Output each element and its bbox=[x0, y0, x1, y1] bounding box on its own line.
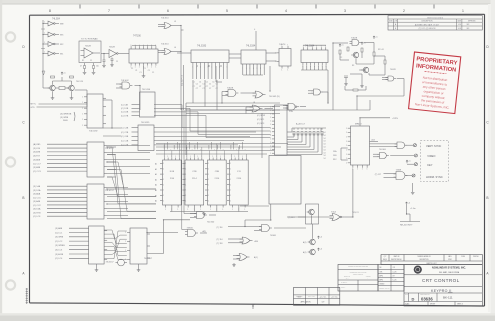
svg-text:(T) 114: (T) 114 bbox=[217, 239, 223, 241]
svg-text:C7: C7 bbox=[199, 86, 201, 88]
svg-text:(X) LC3: (X) LC3 bbox=[55, 250, 63, 252]
svg-text:A+A DO-7: A+A DO-7 bbox=[296, 123, 306, 126]
svg-text:(X) WRB: (X) WRB bbox=[55, 237, 64, 239]
svg-text:1: 1 bbox=[177, 209, 178, 211]
svg-text:14: 14 bbox=[324, 158, 326, 160]
svg-text:C1: C1 bbox=[196, 84, 198, 86]
svg-text:2: 2 bbox=[403, 9, 405, 13]
svg-text:(X) A3B: (X) A3B bbox=[33, 166, 41, 169]
svg-text:R3: R3 bbox=[352, 65, 354, 67]
svg-text:C1: C1 bbox=[131, 68, 133, 70]
svg-text:74LS00: 74LS00 bbox=[207, 222, 215, 224]
svg-text:2114: 2114 bbox=[236, 178, 241, 180]
svg-text:NE-423 KEY: NE-423 KEY bbox=[400, 225, 413, 227]
svg-text:2114: 2114 bbox=[192, 178, 197, 180]
svg-text:1: 1 bbox=[303, 46, 304, 48]
svg-text:A(1): A(1) bbox=[303, 241, 307, 244]
svg-text:(C) 41 PTS: (C) 41 PTS bbox=[182, 75, 184, 86]
svg-text:74LS10: 74LS10 bbox=[161, 44, 169, 46]
svg-text:74L5157: 74L5157 bbox=[106, 261, 115, 263]
svg-text:W.T: W.T bbox=[393, 275, 396, 277]
svg-text:A1: A1 bbox=[155, 178, 157, 181]
svg-text:74LS195: 74LS195 bbox=[141, 122, 150, 124]
svg-text:C1: C1 bbox=[135, 70, 137, 72]
svg-text:WE: WE bbox=[60, 24, 64, 26]
svg-text:(C) CC5: (C) CC5 bbox=[33, 197, 41, 199]
svg-text:1: 1 bbox=[139, 66, 140, 68]
svg-text:74S74: 74S74 bbox=[279, 44, 286, 46]
svg-text:1: 1 bbox=[270, 153, 271, 155]
svg-text:(X) WRRGB: (X) WRRGB bbox=[60, 114, 72, 116]
svg-text:1: 1 bbox=[281, 45, 282, 47]
svg-text:L4: L4 bbox=[174, 47, 176, 49]
svg-text:(T) U17, (C) U8 ECN: (T) U17, (C) U8 ECN bbox=[419, 28, 436, 30]
svg-text:C1: C1 bbox=[139, 72, 141, 74]
svg-text:1: 1 bbox=[125, 250, 126, 252]
svg-text:R2 L41: R2 L41 bbox=[378, 49, 384, 51]
svg-text:(T) 118: (T) 118 bbox=[217, 243, 223, 245]
svg-text:5: 5 bbox=[226, 9, 228, 13]
svg-text:1: 1 bbox=[82, 113, 83, 115]
svg-text:1: 1 bbox=[222, 209, 223, 211]
svg-text:1: 1 bbox=[82, 108, 83, 110]
svg-text:74LS04: 74LS04 bbox=[52, 19, 61, 21]
svg-text:14: 14 bbox=[324, 155, 326, 157]
svg-text:K7A: K7A bbox=[170, 170, 175, 173]
svg-text:74628: 74628 bbox=[109, 47, 116, 49]
svg-text:1: 1 bbox=[197, 156, 198, 158]
svg-text:14: 14 bbox=[324, 141, 326, 143]
svg-text:1: 1 bbox=[44, 32, 45, 34]
svg-text:1: 1 bbox=[82, 125, 83, 127]
svg-text:1: 1 bbox=[270, 128, 271, 130]
svg-text:C2: C2 bbox=[340, 57, 342, 59]
svg-text:W.F: W.F bbox=[467, 28, 470, 30]
svg-text:A1: A1 bbox=[155, 163, 157, 166]
svg-text:L3: L3 bbox=[174, 21, 176, 23]
svg-text:1: 1 bbox=[234, 156, 235, 158]
svg-text:UNLESS OTHERWISE SPECIFIED: UNLESS OTHERWISE SPECIFIED bbox=[348, 266, 368, 268]
svg-text:KEY: KEY bbox=[427, 163, 432, 167]
svg-text:(C) C4B: (C) C4B bbox=[121, 128, 129, 130]
svg-text:74S00: 74S00 bbox=[187, 228, 194, 230]
svg-text:1: 1 bbox=[44, 21, 45, 23]
svg-text:(X) K14: (X) K14 bbox=[33, 148, 41, 150]
svg-text:27A: 27A bbox=[170, 177, 174, 180]
svg-text:1: 1 bbox=[270, 149, 271, 151]
svg-text:1: 1 bbox=[270, 146, 271, 148]
svg-text:1: 1 bbox=[346, 141, 347, 143]
svg-text:C2B: C2B bbox=[192, 171, 197, 173]
svg-text:1: 1 bbox=[346, 154, 347, 156]
svg-text:(X) D2A: (X) D2A bbox=[33, 208, 41, 211]
svg-text:TX TO RTN RAD: TX TO RTN RAD bbox=[81, 38, 98, 41]
svg-text:1: 1 bbox=[242, 156, 243, 158]
svg-text:QTY: QTY bbox=[384, 256, 387, 258]
svg-text:C7: C7 bbox=[216, 88, 218, 90]
svg-text:74L5196: 74L5196 bbox=[142, 89, 151, 91]
svg-text:MTTC: MTTC bbox=[31, 104, 37, 106]
svg-text:1: 1 bbox=[367, 169, 368, 171]
svg-text:REQD: REQD bbox=[383, 259, 387, 261]
svg-text:1: 1 bbox=[312, 46, 313, 48]
svg-text:1-26: 1-26 bbox=[458, 24, 461, 26]
svg-text:IDENTIFYING NO.: IDENTIFYING NO. bbox=[391, 259, 403, 261]
svg-text:LTR: LTR bbox=[394, 21, 396, 23]
svg-text:(T) 117: (T) 117 bbox=[375, 174, 382, 176]
svg-text:A(1): A(1) bbox=[303, 251, 307, 254]
svg-text:1: 1 bbox=[82, 96, 83, 98]
svg-text:1: 1 bbox=[190, 156, 191, 158]
svg-text:74L5192: 74L5192 bbox=[89, 131, 98, 133]
svg-text:1: 1 bbox=[210, 209, 211, 211]
svg-text:1: 1 bbox=[270, 110, 271, 112]
svg-text:(A) KB5: (A) KB5 bbox=[33, 143, 41, 146]
svg-text:(X) WRB: (X) WRB bbox=[60, 117, 69, 119]
svg-text:14: 14 bbox=[324, 149, 326, 151]
svg-text:DESCRIPTION: DESCRIPTION bbox=[422, 21, 434, 23]
svg-text:1: 1 bbox=[125, 232, 126, 234]
svg-text:B: B bbox=[22, 196, 24, 200]
svg-text:(X) A5B: (X) A5B bbox=[33, 158, 41, 161]
svg-text:1: 1 bbox=[270, 135, 271, 137]
svg-text:1: 1 bbox=[135, 66, 136, 68]
svg-text:(X) A6A: (X) A6A bbox=[33, 193, 41, 196]
svg-text:(X) F27: (X) F27 bbox=[33, 156, 41, 158]
svg-text:(C) SC1: (C) SC1 bbox=[257, 119, 265, 121]
svg-text:1: 1 bbox=[287, 69, 288, 71]
svg-text:VERT. SYNC: VERT. SYNC bbox=[426, 144, 441, 148]
svg-text:(C) CC2: (C) CC2 bbox=[33, 205, 41, 207]
svg-text:CRT CONTROL: CRT CONTROL bbox=[422, 278, 460, 283]
svg-text:74L5157: 74L5157 bbox=[144, 258, 153, 260]
svg-text:47: 47 bbox=[80, 66, 82, 68]
svg-text:(T) 116: (T) 116 bbox=[217, 227, 223, 229]
svg-text:1: 1 bbox=[175, 156, 176, 158]
svg-text:1: 1 bbox=[346, 136, 347, 138]
svg-text:1: 1 bbox=[346, 145, 347, 147]
svg-text:1: 1 bbox=[151, 66, 152, 68]
svg-text:DR: DR bbox=[380, 267, 382, 269]
svg-text:1: 1 bbox=[281, 69, 282, 71]
svg-text:RGB: RGB bbox=[63, 120, 68, 122]
svg-text:A(1): A(1) bbox=[203, 230, 207, 233]
svg-text:14: 14 bbox=[324, 135, 326, 137]
svg-text:6-1-76: 6-1-76 bbox=[393, 279, 397, 281]
svg-text:1: 1 bbox=[270, 142, 271, 144]
svg-text:74T190: 74T190 bbox=[133, 36, 142, 38]
svg-text:B: B bbox=[486, 196, 488, 200]
svg-text:1: 1 bbox=[316, 46, 317, 48]
svg-text:(X) A8B: (X) A8B bbox=[55, 227, 63, 230]
svg-text:74LS194: 74LS194 bbox=[246, 45, 256, 47]
svg-text:74S08: 74S08 bbox=[270, 235, 277, 237]
svg-text:(C) C1B: (C) C1B bbox=[121, 140, 129, 142]
svg-text:C7: C7 bbox=[212, 86, 214, 88]
svg-text:A1: A1 bbox=[155, 189, 157, 192]
svg-text:2114: 2114 bbox=[214, 178, 219, 180]
svg-text:(X) WRBB: (X) WRBB bbox=[55, 245, 65, 247]
svg-text:DESCRIPTION: DESCRIPTION bbox=[420, 259, 429, 261]
svg-text:SIZE: SIZE bbox=[405, 294, 408, 296]
svg-text:A1: A1 bbox=[155, 184, 157, 187]
svg-text:C1: C1 bbox=[206, 82, 208, 84]
svg-text:HORIZ. SYNC: HORIZ. SYNC bbox=[426, 175, 443, 179]
svg-text:4: 4 bbox=[254, 29, 255, 31]
svg-text:ALIGNED (NK) GA W. (T) U17: ALIGNED (NK) GA W. (T) U17 bbox=[415, 23, 439, 26]
svg-text:1: 1 bbox=[270, 117, 271, 119]
svg-text:C1: C1 bbox=[202, 84, 204, 86]
svg-text:C1: C1 bbox=[216, 84, 218, 86]
svg-text:C1: C1 bbox=[148, 70, 150, 72]
svg-text:1: 1 bbox=[287, 45, 288, 47]
svg-text:1: 1 bbox=[270, 121, 271, 123]
svg-text:(X) A11B: (X) A11B bbox=[55, 253, 64, 256]
svg-text:74LS10: 74LS10 bbox=[161, 18, 169, 20]
svg-text:1: 1 bbox=[270, 131, 271, 133]
svg-text:(C) LC2: (C) LC2 bbox=[55, 241, 63, 243]
svg-text:CHK: CHK bbox=[380, 271, 383, 273]
svg-text:74608: 74608 bbox=[396, 169, 402, 171]
svg-text:14: 14 bbox=[324, 147, 326, 149]
svg-text:(C) CC7: (C) CC7 bbox=[33, 163, 41, 165]
svg-text:1: 1 bbox=[200, 209, 201, 211]
svg-text:FINISH: FINISH bbox=[341, 287, 345, 289]
svg-text:1: 1 bbox=[346, 128, 347, 130]
svg-text:(X) RTB: (X) RTB bbox=[33, 212, 41, 214]
svg-text:1: 1 bbox=[357, 169, 358, 171]
svg-text:(X) A7B: (X) A7B bbox=[33, 151, 41, 154]
svg-text:3-18: 3-18 bbox=[458, 28, 461, 30]
svg-text:14: 14 bbox=[324, 144, 326, 146]
svg-text:3: 3 bbox=[344, 9, 346, 13]
svg-text:(C) D1B: (C) D1B bbox=[121, 108, 129, 110]
svg-text:1: 1 bbox=[270, 124, 271, 126]
svg-text:(C) C6B: (C) C6B bbox=[121, 136, 129, 138]
svg-text:74L574: 74L574 bbox=[76, 81, 84, 83]
svg-text:1: 1 bbox=[275, 61, 276, 63]
svg-text:A1: A1 bbox=[155, 200, 157, 203]
svg-text:100: 100 bbox=[96, 66, 99, 68]
svg-text:A1: A1 bbox=[155, 168, 157, 171]
svg-text:1: 1 bbox=[220, 156, 221, 158]
svg-text:C1: C1 bbox=[90, 60, 92, 62]
svg-text:1: 1 bbox=[346, 132, 347, 134]
svg-text:(C) LC1: (C) LC1 bbox=[55, 232, 63, 234]
svg-text:(C) SC3: (C) SC3 bbox=[257, 123, 265, 125]
svg-text:4: 4 bbox=[285, 9, 287, 13]
svg-text:1: 1 bbox=[44, 42, 45, 44]
svg-text:BK-111: BK-111 bbox=[443, 295, 453, 299]
svg-text:1: 1 bbox=[346, 162, 347, 164]
svg-text:1: 1 bbox=[155, 66, 156, 68]
svg-text:(X) D1A: (X) D1A bbox=[33, 189, 41, 192]
svg-text:(C) 14B: (C) 14B bbox=[121, 105, 129, 107]
svg-text:A1: A1 bbox=[155, 194, 157, 197]
svg-text:(X) A4B: (X) A4B bbox=[33, 200, 41, 203]
svg-text:C1: C1 bbox=[152, 72, 154, 74]
svg-text:A1: A1 bbox=[155, 173, 157, 176]
svg-text:A13: A13 bbox=[372, 138, 375, 141]
svg-text:C7: C7 bbox=[196, 88, 198, 90]
svg-text:VIDEO: VIDEO bbox=[427, 154, 435, 158]
svg-text:1: 1 bbox=[321, 46, 322, 48]
svg-text:1: 1 bbox=[167, 156, 168, 158]
svg-text:1: 1 bbox=[462, 9, 464, 13]
svg-text:74628: 74628 bbox=[227, 88, 234, 90]
svg-text:1: 1 bbox=[325, 46, 326, 48]
svg-text:4-1-76: 4-1-76 bbox=[393, 271, 397, 273]
svg-text:1: 1 bbox=[270, 106, 271, 108]
svg-text:+5 Ga: +5 Ga bbox=[410, 208, 416, 210]
svg-text:1: 1 bbox=[44, 51, 45, 53]
svg-text:1: 1 bbox=[147, 66, 148, 68]
svg-text:(C) D2B: (C) D2B bbox=[121, 112, 129, 114]
svg-text:DEL MAR, CALIFORNIA: DEL MAR, CALIFORNIA bbox=[439, 271, 460, 274]
svg-text:C1: C1 bbox=[199, 82, 201, 84]
svg-text:.XX ±: .XX ± bbox=[346, 278, 349, 280]
svg-text:74LS02: 74LS02 bbox=[121, 80, 129, 82]
svg-text:1: 1 bbox=[125, 259, 126, 261]
svg-text:ZONE: ZONE bbox=[389, 21, 393, 23]
svg-text:1: 1 bbox=[212, 156, 213, 158]
svg-text:1: 1 bbox=[125, 241, 126, 243]
svg-text:C5: C5 bbox=[116, 61, 118, 63]
svg-text:1: 1 bbox=[244, 209, 245, 211]
svg-text:A(1): A(1) bbox=[254, 256, 258, 259]
svg-text:C1: C1 bbox=[212, 82, 214, 84]
svg-text:TK3,74: TK3,74 bbox=[352, 212, 359, 214]
svg-text:1: 1 bbox=[232, 209, 233, 211]
svg-text:(C) SCW: (C) SCW bbox=[257, 115, 265, 117]
svg-text:A30: A30 bbox=[255, 240, 258, 243]
svg-text:1: 1 bbox=[362, 169, 363, 171]
svg-text:QTY: QTY bbox=[322, 301, 325, 303]
svg-text:ISSUED: ISSUED bbox=[380, 283, 385, 285]
svg-text:R E V I S I O N S: R E V I S I O N S bbox=[427, 17, 443, 19]
svg-text:(C) LC4: (C) LC4 bbox=[55, 258, 63, 260]
svg-text:8: 8 bbox=[49, 9, 51, 13]
svg-text:(C) CC3: (C) CC3 bbox=[33, 171, 41, 173]
svg-text:6: 6 bbox=[167, 9, 169, 13]
svg-text:SPEC: SPEC bbox=[448, 259, 452, 261]
svg-text:74LS157: 74LS157 bbox=[105, 148, 115, 150]
svg-text:C9B: C9B bbox=[215, 171, 220, 173]
svg-text:WEIGHT: WEIGHT bbox=[430, 304, 435, 306]
svg-text:7: 7 bbox=[108, 9, 110, 13]
svg-text:7414: 7414 bbox=[331, 212, 337, 214]
svg-text:GTD: GTD bbox=[31, 107, 36, 109]
svg-text:(X) 14A: (X) 14A bbox=[33, 185, 41, 188]
svg-text:ZONE: ZONE bbox=[461, 256, 465, 258]
svg-text:C1: C1 bbox=[144, 68, 146, 70]
svg-text:74LS193: 74LS193 bbox=[197, 45, 207, 47]
svg-text:(C) LC8: (C) LC8 bbox=[33, 216, 41, 218]
svg-text:NONLINEAR SYSTEMS, INC.: NONLINEAR SYSTEMS, INC. bbox=[432, 267, 466, 270]
svg-text:R1: R1 bbox=[82, 60, 84, 62]
svg-text:SHEET 21: SHEET 21 bbox=[457, 304, 463, 306]
svg-text:1: 1 bbox=[165, 209, 166, 211]
svg-text:1: 1 bbox=[270, 139, 271, 141]
svg-text:14: 14 bbox=[324, 132, 326, 134]
svg-text:1: 1 bbox=[307, 46, 308, 48]
svg-text:C7: C7 bbox=[209, 88, 211, 90]
svg-text:74LS02 (S): 74LS02 (S) bbox=[269, 96, 280, 98]
svg-text:C7: C7 bbox=[202, 88, 204, 90]
svg-text:C1: C1 bbox=[209, 84, 211, 86]
svg-text:D: D bbox=[412, 296, 415, 301]
svg-text:W.F: W.F bbox=[467, 24, 470, 26]
svg-text:14: 14 bbox=[324, 138, 326, 140]
svg-text:1: 1 bbox=[187, 209, 188, 211]
svg-text:1: 1 bbox=[270, 114, 271, 116]
svg-text:74628: 74628 bbox=[351, 38, 358, 40]
svg-text:(C) D7B: (C) D7B bbox=[121, 115, 129, 117]
svg-text:74628: 74628 bbox=[390, 69, 396, 71]
svg-text:74LS157: 74LS157 bbox=[105, 190, 115, 192]
svg-text:C7: C7 bbox=[206, 86, 208, 88]
svg-text:ITEM NO.: ITEM NO. bbox=[473, 256, 479, 258]
svg-text:1: 1 bbox=[346, 149, 347, 151]
svg-text:03636: 03636 bbox=[421, 296, 433, 301]
svg-text:-CIPS: -CIPS bbox=[392, 118, 398, 120]
svg-text:74LS00: 74LS00 bbox=[379, 149, 387, 151]
svg-text:1: 1 bbox=[82, 119, 83, 121]
svg-text:(T) D13: (T) D13 bbox=[288, 217, 294, 219]
svg-text:74628: 74628 bbox=[85, 46, 92, 48]
svg-text:MRDO: MRDO bbox=[355, 124, 362, 126]
svg-text:(C) C2B: (C) C2B bbox=[121, 132, 129, 134]
svg-text:14: 14 bbox=[324, 152, 326, 154]
